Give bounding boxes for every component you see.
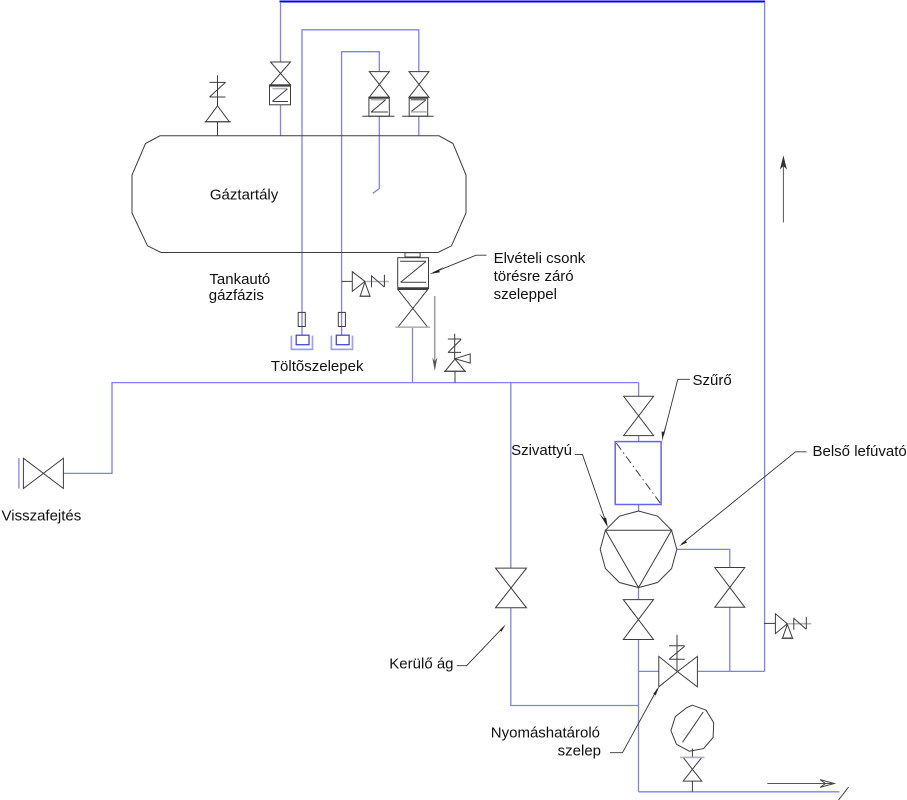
wire main horizontal line with left drop to visszafejtes valve [63,383,638,474]
wire takeoff drop to main line [412,327,414,382]
svg-text:Szivattyú: Szivattyú [511,442,572,459]
safety valve SV2 on main line [444,334,470,383]
svg-text:Tankautó: Tankautó [209,271,270,288]
wire pump outlet right branch [677,549,730,671]
filter F1 [615,442,661,505]
flow arrow bottom outlet [767,780,834,788]
wire pressure-limit valve line [639,670,765,672]
valve V4 visszafejtes [23,458,63,488]
svg-text:Töltõszelepek: Töltõszelepek [271,358,364,375]
wire bottom outlet line [639,791,840,793]
flow arrow down (gray) [432,296,437,371]
svg-text:szelep: szelep [558,742,601,759]
leader L6 nyomashatarolo [610,686,659,752]
leader L3 szivattyu [575,455,608,528]
svg-text:Nyomáshatároló: Nyomáshatároló [491,724,600,741]
pump P1 [600,511,677,588]
relief valve RV2 on right riser [775,614,811,639]
safety valve SV1 on tank [205,75,231,135]
svg-text:Szűrő: Szűrő [693,372,732,389]
valve V7 pump discharge branch [715,568,745,608]
wire relief stub on right riser [764,622,776,624]
svg-text:Belső lefúvató: Belső lefúvató [813,443,907,460]
pressure gauge PG1 with valve [671,705,714,792]
wire visszafejtes stub tick [18,458,20,488]
svg-text:Gáztartály: Gáztartály [210,186,279,203]
wire valve1 drop from header [280,2,282,136]
svg-text:Kerülő ág: Kerülő ág [389,656,453,673]
pipe break slash bottom right [839,787,849,800]
wire top header (dark blue) [280,0,766,2]
tank T1 (Gaztartaly) [132,136,466,253]
wire loop B (cup2 up over to valve2, into tank with jog) [342,52,380,336]
flow arrow up right riser [780,155,787,222]
wire bypass branch [511,383,639,706]
valve V1 on tank (solenoid) [270,62,291,105]
relief valve RV1 near loop B [342,272,389,297]
valve V3 on tank (solenoid) [402,72,433,117]
leader L1 elveteli csonk [430,255,487,274]
filling valve FV1 nozzle and cup [291,312,312,349]
wire loop A (cup1 up over to valve3) [302,30,419,335]
svg-text:Visszafejtés: Visszafejtés [2,508,82,525]
filling valve FV2 nozzle and cup [331,312,352,349]
svg-text:szeleppel: szeleppel [494,286,557,303]
wire filter connections [638,383,640,511]
valve V6 bypass [496,568,527,608]
leader L5 kerulo ag [457,624,506,665]
valve V5 filter inlet [624,396,654,435]
leader L4 belso lefuvato [679,452,807,546]
takeoff nozzle U1 (Elveteli csonk) [396,253,431,328]
svg-text:törésre záró: törésre záró [494,268,574,285]
leader L2 szuro [662,379,690,441]
wire right main riser [764,2,766,671]
valve V2 on tank (solenoid) [362,72,394,117]
pressure limiting valve V9 with spring [659,635,698,687]
valve V8 pump bottom [623,600,653,640]
svg-text:Elvételi csonk: Elvételi csonk [494,250,586,267]
wire pump bottom run [638,588,640,792]
svg-text:gázfázis: gázfázis [209,287,264,304]
